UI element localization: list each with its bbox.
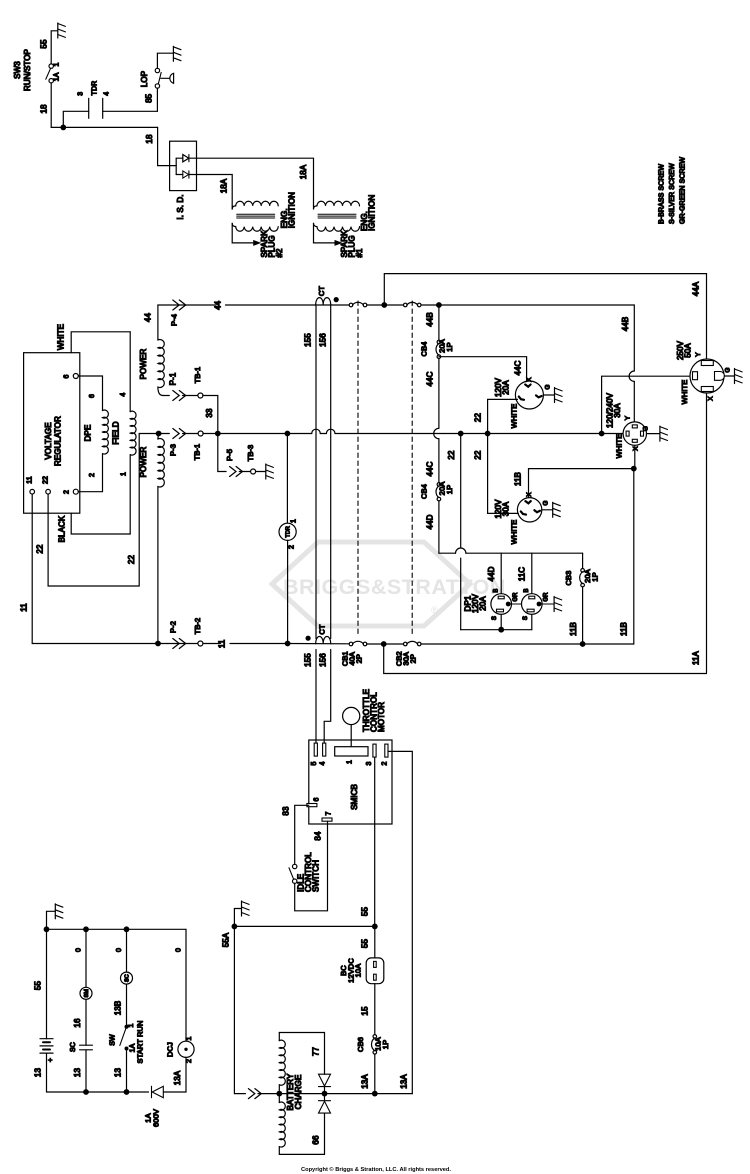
node rail dots (44, 926, 130, 932)
svg-text:CB4: CB4 (420, 342, 429, 357)
wire 11 bus segment 3 (289, 643, 349, 645)
label 13A left (361, 1074, 370, 1089)
label CB4 no2 (420, 484, 429, 499)
wire pin2 to 13A column (388, 751, 412, 1093)
wire 44 CB1 to node (367, 304, 383, 306)
wire 18A to coil 1 (189, 158, 314, 206)
terminal TB-1 P1 (193, 367, 203, 398)
svg-text:P-1: P-1 (169, 372, 178, 385)
label 77 (312, 1047, 321, 1057)
svg-text:55: 55 (40, 39, 49, 49)
node dot power2 top (156, 431, 162, 437)
wire 155 (315, 305, 317, 743)
label 16 (73, 1018, 82, 1028)
breaker CB4 no1 (436, 340, 441, 358)
wire 44D to CB3 col (466, 552, 583, 554)
svg-text:22: 22 (127, 555, 136, 565)
label Y 240 (625, 415, 632, 420)
label CT top (317, 286, 326, 297)
label 13 b (114, 1068, 123, 1078)
svg-text:7: 7 (326, 812, 333, 816)
label 11 left (20, 603, 29, 612)
wire 13A bus (279, 1093, 412, 1095)
label 2 tdr (289, 545, 296, 549)
capacitor SC (80, 1045, 93, 1050)
connector P-3 (162, 429, 198, 439)
label CB4 no1 (420, 342, 429, 357)
label 11C (518, 567, 527, 582)
label CB6 (356, 1037, 365, 1052)
svg-text:0: 0 (176, 948, 183, 952)
wire WHITE from regulator (71, 332, 130, 353)
winding DPE (78, 376, 108, 492)
label 120V 20A (494, 377, 511, 397)
svg-text:16: 16 (73, 1018, 82, 1028)
svg-text:600V: 600V (152, 1109, 161, 1127)
CT top coil (316, 298, 331, 305)
wire neutral bus segment 3 (335, 433, 444, 435)
label B right (523, 588, 550, 620)
wire 77 to diode (324, 1033, 326, 1075)
svg-text:P-5: P-5 (225, 449, 234, 461)
wire X 240 down (634, 445, 636, 468)
node DP1 S join (498, 627, 504, 633)
wire 11 bus segment 5 (367, 643, 404, 645)
label 44B cb4 (426, 312, 435, 327)
label Y 250 (695, 352, 702, 357)
label BATTERY CHARGE (286, 1073, 303, 1110)
diode charge lower (319, 1094, 331, 1155)
wire DCJ down (185, 1057, 187, 1092)
wire battery left (46, 929, 48, 1038)
breaker CB2 bottom pole (404, 641, 422, 645)
label 22 w20 (474, 450, 483, 460)
winding battery charge upper (279, 1033, 324, 1094)
svg-text:POWER: POWER (139, 349, 148, 380)
svg-text:SWITCH: SWITCH (312, 860, 321, 892)
switch SW3 RUN/STOP (46, 31, 58, 83)
node CB3 bus (580, 641, 586, 647)
wire 44 CB2 to CB4node (421, 304, 439, 306)
wire 11 bus segment 6 (421, 643, 634, 645)
wire 22 down (460, 434, 462, 548)
connector charge chevron (248, 1089, 277, 1099)
receptacle 120V 30A (517, 498, 541, 522)
label 1 dcj (186, 1037, 193, 1041)
svg-text:B: B (524, 588, 530, 592)
wire neutral to 120/240 W (602, 433, 624, 435)
node 11A branch (381, 641, 387, 647)
wire W 20A neutral (488, 399, 518, 433)
svg-text:X: X (633, 446, 640, 451)
svg-text:44: 44 (214, 300, 223, 310)
label DP1 120V 20A (464, 593, 488, 613)
receptacle DP1 right (522, 594, 543, 615)
ground at SW3 (58, 23, 66, 38)
label 55A (222, 932, 231, 947)
label 1A 600V (144, 1109, 161, 1127)
label P-3 (169, 444, 178, 456)
label 44 left (144, 313, 153, 323)
svg-text:MOTOR: MOTOR (377, 702, 386, 732)
label 20A 1P no1 (438, 339, 455, 353)
node CB6 bottom join (372, 1091, 378, 1097)
label 15 (361, 1006, 370, 1016)
pin 5 (311, 743, 318, 765)
label CB3 (564, 571, 573, 586)
wire 22 to S bus (461, 629, 532, 631)
svg-text:1P: 1P (445, 485, 454, 494)
svg-text:83: 83 (282, 806, 291, 816)
connector P-5 branch (218, 434, 251, 477)
pin 3 (366, 744, 376, 765)
label 85 (145, 93, 154, 103)
svg-text:156: 156 (319, 653, 328, 667)
svg-text:22: 22 (474, 450, 483, 460)
svg-text:START RUN: START RUN (136, 1021, 145, 1064)
wire 44 to corner 44B (439, 305, 634, 371)
svg-text:®: ® (431, 605, 438, 615)
label 18A coil1 (299, 164, 308, 179)
switch idle control (289, 864, 297, 883)
ground at DP1 (554, 597, 562, 612)
wire BC to CB6 (374, 984, 376, 1035)
label 3 (78, 92, 85, 96)
wire CB6 to node (374, 1054, 376, 1094)
label 120V 30A (494, 499, 511, 519)
label SW3 RUN/STOP (13, 49, 32, 91)
svg-text:22: 22 (36, 544, 45, 554)
wire pin6 to idle switch (295, 805, 309, 864)
svg-text:155: 155 (304, 333, 313, 347)
receptacle 120/240V 30A (623, 422, 646, 445)
svg-text:85: 85 (145, 93, 154, 103)
legend screw colors (659, 157, 687, 224)
bump neutral over 156 (326, 429, 335, 433)
label 18A coil2 (220, 178, 229, 193)
label 13A right (400, 1074, 409, 1089)
wire 55 to BC (374, 926, 376, 958)
svg-text:4: 4 (319, 762, 326, 766)
svg-text:1A: 1A (54, 72, 61, 81)
label DPE (84, 425, 93, 442)
svg-text:CHARGE: CHARGE (294, 1075, 303, 1110)
pin 4 (319, 743, 326, 765)
terminal 6 (64, 374, 79, 379)
svg-text:22: 22 (447, 450, 456, 460)
label 11B col (620, 622, 629, 636)
svg-text:GR: GR (544, 592, 550, 602)
node 44A branch (381, 302, 387, 308)
label 2 dpe (89, 473, 96, 477)
label 13A dcj (173, 1070, 182, 1085)
svg-text:44B: 44B (621, 317, 630, 332)
svg-text:DCJ: DCJ (166, 1042, 175, 1057)
winding battery charge lower (279, 1094, 324, 1155)
svg-text:TB-1: TB-1 (193, 444, 202, 461)
wire neutral bus segment 6 (488, 433, 600, 435)
svg-text:CB3: CB3 (564, 571, 573, 586)
terminal TB-2 (193, 618, 203, 646)
terminal 11 (27, 476, 35, 494)
label DCJ (166, 1042, 175, 1057)
svg-text:20A: 20A (479, 596, 488, 611)
svg-text:11B: 11B (514, 472, 523, 486)
label SMICB (350, 784, 359, 810)
wire 18A to coil 2 (189, 175, 232, 206)
svg-text:TB-2: TB-2 (193, 618, 202, 635)
label 55 (40, 39, 49, 49)
node 55A corner (232, 924, 238, 930)
svg-text:55: 55 (34, 981, 43, 991)
svg-text:4: 4 (120, 393, 127, 397)
wire 18 horizontal (51, 126, 157, 128)
svg-text:G: G (725, 367, 732, 372)
label 18 at ISD (145, 134, 154, 144)
label 0 c (176, 948, 183, 952)
label 33 (205, 408, 214, 418)
svg-text:18A: 18A (220, 178, 229, 193)
wire 44A up and right (384, 274, 706, 360)
wire 11C drop (531, 553, 533, 594)
label 1A 1 terminals (54, 63, 61, 82)
box voltage regulator (24, 353, 80, 514)
svg-text:44B: 44B (426, 312, 435, 327)
diode D2 in ISD (183, 171, 189, 178)
svg-text:SC: SC (125, 974, 131, 982)
label 1A sw (130, 1043, 137, 1052)
svg-text:CT: CT (318, 624, 327, 635)
label I.S.D. (176, 194, 185, 219)
label 0 b (116, 948, 123, 952)
svg-text:13A: 13A (361, 1074, 370, 1089)
svg-text:CB6: CB6 (356, 1037, 365, 1052)
svg-text:GR-GREEN SCREW: GR-GREEN SCREW (680, 157, 687, 224)
wire LOP to ground (157, 53, 173, 68)
wire G 30A to ground (542, 509, 553, 511)
svg-text:FIELD: FIELD (111, 421, 120, 444)
label 22 w20 up (473, 413, 482, 423)
ground at LOP (173, 46, 181, 61)
svg-text:13: 13 (114, 1068, 123, 1078)
label 120/240V 30A (606, 392, 623, 428)
wire 55A down to charge (234, 926, 245, 1093)
bump 44C over neutral (434, 428, 439, 438)
wire W 30A neutral (488, 434, 519, 514)
winding POWER 2 (158, 434, 164, 644)
node 55 join (372, 924, 378, 930)
svg-text:2: 2 (186, 1059, 193, 1063)
wire 44B to Y 120/240V (633, 382, 635, 422)
label 0 a (76, 948, 83, 952)
bump 44D over 22 (456, 548, 466, 553)
svg-text:84: 84 (314, 831, 323, 841)
label 155 top (304, 333, 313, 347)
svg-text:77: 77 (312, 1047, 321, 1057)
label 250V 50A (676, 340, 693, 360)
svg-text:#2: #2 (275, 248, 284, 258)
svg-text:IGNITION: IGNITION (368, 195, 377, 231)
svg-text:2: 2 (382, 762, 389, 766)
wire battery left lower (46, 1053, 48, 1092)
wire 11 bus segment 2 (230, 643, 286, 645)
svg-text:RUN/STOP: RUN/STOP (23, 49, 32, 91)
label 44 on wire (214, 300, 223, 310)
copyright line (301, 1166, 451, 1173)
pin 1 connector (335, 747, 368, 764)
diode D1 in ISD (183, 154, 189, 162)
svg-text:10A: 10A (354, 964, 363, 978)
relay TDR (279, 523, 296, 540)
wire 156 (324, 305, 331, 743)
label 55 pin3 (361, 907, 370, 917)
node CT polarity dot top (334, 297, 339, 302)
svg-text:11B: 11B (620, 622, 629, 636)
label 55 batt (34, 981, 43, 991)
label 2 dcj (186, 1059, 193, 1063)
svg-text:22: 22 (473, 413, 482, 423)
label 20A 1P no2 (438, 482, 455, 496)
svg-text:TB-1: TB-1 (193, 367, 202, 384)
svg-text:B-BRASS SCREW: B-BRASS SCREW (659, 164, 666, 224)
wire 11B to 120V 30A (529, 469, 634, 498)
wire motor to pin 1 (350, 725, 352, 747)
wire 11C to CB3 (582, 553, 584, 568)
svg-text:TB-3: TB-3 (246, 445, 255, 462)
node bottom dots (83, 1089, 129, 1095)
label 1 tdr (291, 519, 298, 523)
wire 44C down (438, 359, 440, 429)
label 44B right (621, 317, 630, 332)
svg-text:P-4: P-4 (170, 314, 179, 326)
label 11B cb3 (569, 622, 578, 636)
ground at TB-3 (266, 464, 274, 479)
label X 240 (633, 446, 640, 451)
wire CB3 to bus (582, 587, 584, 644)
socket BC 12VDC (366, 958, 384, 984)
svg-text:11: 11 (218, 639, 227, 648)
label 83 (282, 806, 291, 816)
label 1 (120, 472, 127, 476)
wire pin3 55 (374, 757, 376, 925)
svg-text:I. S. D.: I. S. D. (176, 194, 185, 219)
ISD internal input bar (170, 158, 183, 174)
svg-text:13B: 13B (114, 1001, 123, 1016)
wire battery ground stub (47, 911, 56, 929)
terminal 22 (42, 476, 50, 494)
svg-text:2P: 2P (355, 654, 364, 663)
battery B1 (40, 1039, 55, 1062)
ground at 120V 20A (555, 388, 563, 403)
svg-text:33: 33 (205, 408, 214, 418)
transformer ignition coil #2 (232, 201, 278, 246)
svg-text:55: 55 (361, 907, 370, 917)
svg-text:Y: Y (695, 352, 702, 357)
svg-text:44A: 44A (692, 281, 701, 296)
wire branch SC (126, 929, 128, 972)
svg-text:2: 2 (64, 490, 71, 494)
switch SW start/run (120, 1025, 129, 1051)
svg-text:1: 1 (291, 519, 298, 523)
node CB4 branch (436, 302, 442, 308)
wire G 250 to ground (724, 375, 734, 377)
svg-text:155: 155 (304, 653, 313, 667)
wire 44D down (438, 501, 440, 553)
svg-text:11: 11 (27, 476, 34, 483)
label 13B (114, 1001, 123, 1016)
svg-text:TDR: TDR (286, 526, 292, 538)
svg-text:156: 156 (319, 333, 328, 347)
svg-text:3: 3 (78, 92, 85, 96)
svg-text:VOLTAGE: VOLTAGE (44, 422, 53, 459)
label 22 a (36, 544, 45, 554)
ground at 120V 30A (553, 502, 561, 517)
label X 20A (526, 377, 533, 382)
capacitor TDR plates (89, 98, 103, 118)
svg-text:6: 6 (64, 375, 71, 379)
wire switch down (126, 1049, 128, 1093)
svg-text:66: 66 (312, 1135, 321, 1145)
bump 44B over white wire (629, 371, 634, 381)
receptacle 250V 50A (690, 359, 724, 393)
svg-text:1: 1 (186, 1037, 193, 1041)
wire 33 (203, 396, 218, 431)
node 22 branch b (485, 431, 491, 437)
wire 44D drop to DP1 B (500, 553, 502, 594)
wire neutral bus segment 5 (461, 433, 486, 435)
label 155 bottom (304, 653, 313, 667)
svg-text:3: 3 (366, 762, 373, 766)
svg-text:2P: 2P (409, 654, 418, 663)
svg-text:6: 6 (89, 394, 96, 398)
wire 18 down to ISD (158, 127, 170, 165)
svg-text:SW: SW (110, 1034, 117, 1046)
svg-text:S: S (523, 616, 529, 620)
svg-text:CT: CT (317, 286, 326, 297)
diode 1A 600V (152, 1086, 164, 1097)
label WHITE 250 (680, 380, 689, 405)
label SPARK PLUG #1 (340, 230, 364, 258)
winding POWER 1 (158, 305, 164, 396)
svg-text:13: 13 (34, 1068, 43, 1078)
wire 11 from regulator to bus (32, 494, 155, 643)
connector P-4 (173, 300, 186, 310)
label 84 (314, 831, 323, 841)
svg-text:#1: #1 (355, 248, 364, 258)
node 22 branch a (458, 431, 464, 437)
svg-text:11A: 11A (692, 650, 701, 665)
wire 44 to CT (226, 304, 350, 306)
svg-text:TDR: TDR (92, 81, 99, 96)
label SPARK PLUG #2 (260, 230, 284, 258)
node power2 bottom (155, 641, 161, 647)
label BLACK (58, 515, 67, 542)
svg-text:IGNITION: IGNITION (288, 192, 297, 228)
wire battery bottom rail (47, 1091, 187, 1093)
label 6 dpe (89, 394, 96, 398)
ground at 120/240V (660, 426, 668, 441)
label 13 a (73, 1068, 82, 1078)
svg-text:WHITE: WHITE (510, 520, 519, 545)
wire 11 bus segment 1 (155, 643, 219, 645)
jack DCJ (178, 1041, 194, 1057)
node CT polarity dot bottom (306, 636, 311, 641)
wire 44D corner (439, 552, 456, 554)
wire 44 corner (158, 304, 216, 306)
label 55 bc (361, 939, 370, 949)
svg-text:POWER: POWER (139, 447, 148, 478)
label CB2 30A 2P (395, 651, 418, 666)
